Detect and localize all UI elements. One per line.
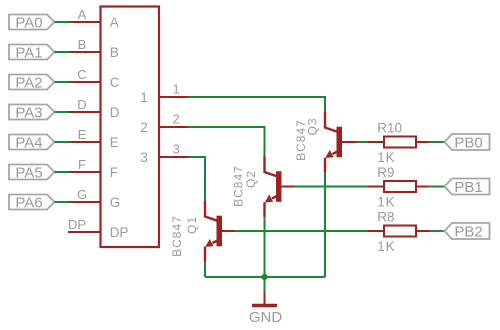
svg-text:C: C xyxy=(77,67,86,82)
IC U1 body xyxy=(101,7,160,248)
svg-text:DP: DP xyxy=(68,217,86,232)
wire net resistor R9 to PB1 xyxy=(429,186,445,188)
svg-text:PA5: PA5 xyxy=(15,164,42,181)
connector flag PA6 xyxy=(9,194,55,211)
connector flag PA4 xyxy=(9,134,55,151)
svg-text:3: 3 xyxy=(140,150,148,165)
svg-text:PA1: PA1 xyxy=(15,44,42,61)
pin 1 of U1 xyxy=(159,96,189,98)
wire net from Q3 base to resistor xyxy=(357,141,368,143)
wire net resistor R8 to PB2 xyxy=(429,230,445,232)
wire bus to GND symbol xyxy=(264,277,266,292)
svg-text:PA0: PA0 xyxy=(15,14,42,31)
connector flag PA5 xyxy=(9,164,55,181)
svg-text:2: 2 xyxy=(173,112,180,127)
svg-text:B: B xyxy=(110,45,119,60)
svg-text:R10: R10 xyxy=(377,121,402,136)
svg-text:GND: GND xyxy=(249,309,283,326)
wire ground bus xyxy=(205,276,325,278)
wire Q1 emitter to ground bus xyxy=(204,261,206,277)
wire net E from PA4 xyxy=(55,141,70,143)
svg-text:A: A xyxy=(110,15,119,30)
svg-text:B: B xyxy=(78,37,87,52)
svg-text:PA2: PA2 xyxy=(15,74,42,91)
wire net G from PA6 xyxy=(55,201,70,203)
pin G of U1 xyxy=(69,201,100,203)
svg-text:F: F xyxy=(78,157,86,172)
svg-text:C: C xyxy=(110,75,120,90)
connector flag PA3 xyxy=(9,104,55,121)
transistor Q3 BC847 xyxy=(325,112,357,173)
svg-text:Q3: Q3 xyxy=(306,117,320,135)
pin C of U1 xyxy=(69,81,100,83)
svg-text:2: 2 xyxy=(140,120,148,135)
connector flag PA0 xyxy=(9,14,55,31)
svg-text:BC847: BC847 xyxy=(170,215,184,257)
pin DP of U1 xyxy=(68,231,100,233)
wire net 1 from U1 pin 1 to Q3 collector xyxy=(189,97,326,112)
svg-text:1: 1 xyxy=(173,82,180,97)
wire net resistor R10 to PB0 xyxy=(429,141,445,143)
wire net 3 from U1 pin 3 to Q1 collector xyxy=(189,157,206,201)
pin B of U1 xyxy=(69,51,100,53)
wire net 2 from U1 pin 2 to Q2 collector xyxy=(189,127,265,156)
wire net from Q2 base to resistor xyxy=(295,186,369,188)
svg-text:D: D xyxy=(77,97,86,112)
svg-text:3: 3 xyxy=(173,142,180,157)
transistor Q2 BC847 xyxy=(265,156,297,217)
resistor R9 xyxy=(368,181,429,192)
svg-text:F: F xyxy=(110,165,118,180)
svg-text:A: A xyxy=(78,7,87,22)
svg-text:PB2: PB2 xyxy=(454,223,482,240)
pin D of U1 xyxy=(69,111,100,113)
svg-text:PB0: PB0 xyxy=(454,134,482,151)
svg-text:1K: 1K xyxy=(377,195,395,210)
svg-text:DP: DP xyxy=(110,225,129,240)
ground symbol GND xyxy=(252,292,277,306)
transistor Q1 BC847 xyxy=(205,201,237,262)
wire Q3 emitter to ground bus xyxy=(324,172,326,277)
connector flag PB1 xyxy=(445,179,490,196)
junction at ground bus xyxy=(261,274,267,280)
svg-text:PA6: PA6 xyxy=(15,194,42,211)
svg-text:E: E xyxy=(78,127,87,142)
wire net B from PA1 xyxy=(55,51,70,53)
svg-text:1K: 1K xyxy=(377,150,395,165)
svg-text:Q2: Q2 xyxy=(244,170,258,188)
svg-text:1: 1 xyxy=(140,90,148,105)
resistor R8 xyxy=(368,226,429,237)
connector flag PA1 xyxy=(9,44,55,61)
svg-text:PB1: PB1 xyxy=(454,179,482,196)
svg-text:R9: R9 xyxy=(377,165,394,180)
svg-text:G: G xyxy=(77,187,87,202)
pin A of U1 xyxy=(69,21,100,23)
svg-text:1K: 1K xyxy=(377,239,395,254)
svg-text:G: G xyxy=(110,195,121,210)
svg-text:R8: R8 xyxy=(377,210,394,225)
connector flag PB2 xyxy=(445,223,490,240)
pin F of U1 xyxy=(69,171,100,173)
wire net C from PA2 xyxy=(55,81,70,83)
pin 2 of U1 xyxy=(159,126,189,128)
svg-text:D: D xyxy=(110,105,120,120)
svg-text:PA3: PA3 xyxy=(15,104,42,121)
wire net F from PA5 xyxy=(55,171,70,173)
wire net D from PA3 xyxy=(55,111,70,113)
resistor R10 xyxy=(368,137,429,148)
svg-text:Q1: Q1 xyxy=(185,216,199,234)
wire net from Q1 base to resistor xyxy=(235,230,369,232)
connector flag PA2 xyxy=(9,74,55,91)
pin E of U1 xyxy=(69,141,100,143)
pin 3 of U1 xyxy=(159,156,189,158)
wire Q2 emitter to ground bus xyxy=(264,217,266,277)
wire net A from PA0 xyxy=(55,21,70,23)
connector flag PB0 xyxy=(445,134,490,151)
svg-text:PA4: PA4 xyxy=(15,134,42,151)
svg-text:E: E xyxy=(110,135,119,150)
